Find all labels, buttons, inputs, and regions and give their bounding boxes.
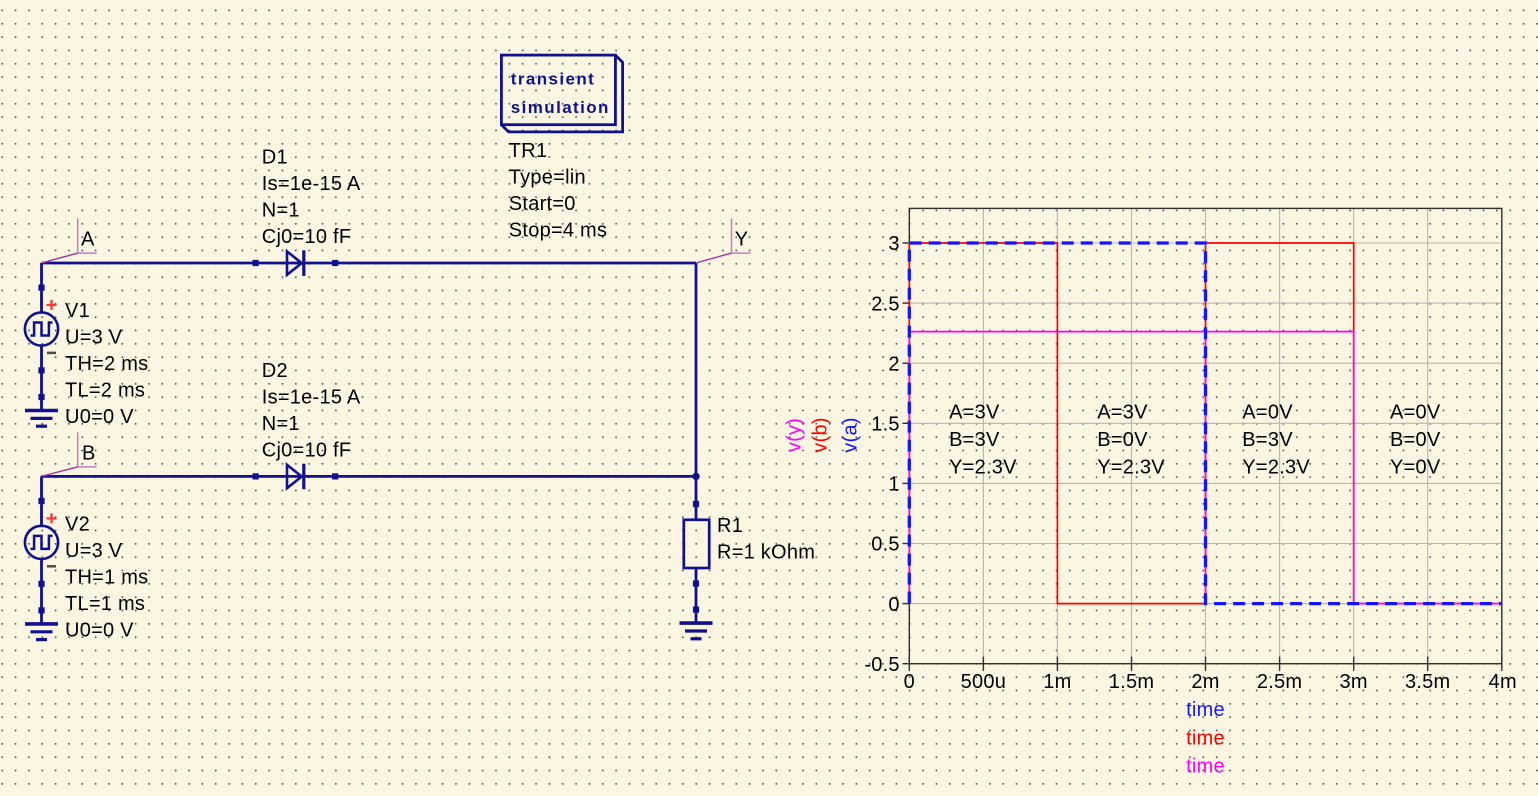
voltage source V2 (rectangular pulse) bbox=[25, 476, 58, 610]
svg-text:500u: 500u bbox=[961, 671, 1007, 693]
svg-text:Cj0=10 fF: Cj0=10 fF bbox=[262, 439, 352, 461]
plot frame bbox=[909, 208, 1502, 663]
svg-text:time: time bbox=[1186, 755, 1225, 777]
svg-text:Y: Y bbox=[735, 229, 749, 251]
label TR1 properties text bbox=[509, 140, 607, 242]
svg-text:V2: V2 bbox=[65, 514, 90, 536]
svg-text:2m: 2m bbox=[1191, 671, 1219, 693]
V2 minus terminal mark bbox=[47, 565, 56, 568]
svg-text:0.5: 0.5 bbox=[871, 534, 900, 556]
svg-text:Stop=4 ms: Stop=4 ms bbox=[509, 220, 607, 242]
svg-text:A: A bbox=[81, 229, 95, 251]
label V2 properties text bbox=[65, 514, 148, 642]
svg-text:3: 3 bbox=[888, 233, 899, 255]
y axis tick labels bbox=[864, 233, 899, 676]
svg-text:TL=2 ms: TL=2 ms bbox=[65, 380, 145, 402]
wire node A horizontal bbox=[42, 262, 697, 265]
ground for V1 bbox=[25, 394, 58, 426]
V2 plus terminal mark bbox=[47, 513, 57, 523]
svg-text:Type=lin: Type=lin bbox=[509, 167, 586, 189]
svg-text:0: 0 bbox=[888, 594, 899, 616]
plot grid lines bbox=[909, 208, 1502, 663]
junction node at Y/R1 bbox=[692, 473, 699, 480]
svg-text:Is=1e-15 A: Is=1e-15 A bbox=[262, 386, 361, 408]
y axis name v(y) bbox=[784, 418, 806, 452]
svg-text:v(b): v(b) bbox=[810, 417, 832, 452]
curve v(b) red bbox=[909, 243, 1502, 604]
svg-text:2: 2 bbox=[888, 353, 899, 375]
svg-text:A=0V: A=0V bbox=[1242, 402, 1293, 424]
svg-text:N=1: N=1 bbox=[262, 200, 300, 222]
node label B bbox=[42, 432, 97, 476]
svg-text:Y=2.3V: Y=2.3V bbox=[949, 457, 1017, 479]
svg-text:Y=2.3V: Y=2.3V bbox=[1242, 457, 1310, 479]
svg-text:4m: 4m bbox=[1489, 671, 1517, 693]
svg-text:TL=1 ms: TL=1 ms bbox=[65, 593, 145, 615]
svg-text:time: time bbox=[1186, 727, 1225, 749]
voltage source V1 (rectangular pulse) bbox=[25, 263, 58, 397]
curve v(y) magenta bbox=[909, 332, 1502, 604]
svg-text:A=3V: A=3V bbox=[1097, 402, 1148, 424]
svg-text:Is=1e-15 A: Is=1e-15 A bbox=[262, 173, 361, 195]
y axis name v(a) bbox=[839, 417, 861, 452]
svg-text:D2: D2 bbox=[262, 360, 288, 382]
curve v(a) blue dashed bbox=[909, 243, 1502, 604]
svg-text:U0=0 V: U0=0 V bbox=[65, 620, 134, 642]
svg-text:R=1 kOhm: R=1 kOhm bbox=[717, 542, 815, 564]
svg-text:1.5: 1.5 bbox=[871, 414, 900, 436]
svg-text:3.5m: 3.5m bbox=[1405, 671, 1450, 693]
svg-text:B: B bbox=[82, 443, 96, 465]
svg-text:A=3V: A=3V bbox=[949, 402, 1000, 424]
resistor R1 bbox=[684, 501, 709, 610]
svg-text:0: 0 bbox=[904, 671, 915, 693]
node annotation columns bbox=[949, 402, 1441, 479]
svg-text:U=3 V: U=3 V bbox=[65, 327, 123, 349]
ground for R1 bbox=[680, 607, 713, 639]
label V1 properties text bbox=[65, 300, 148, 428]
svg-text:A=0V: A=0V bbox=[1390, 402, 1441, 424]
svg-text:3m: 3m bbox=[1340, 671, 1368, 693]
svg-text:B=3V: B=3V bbox=[949, 429, 1000, 451]
svg-text:U0=0 V: U0=0 V bbox=[65, 406, 134, 428]
svg-text:2.5: 2.5 bbox=[871, 293, 900, 315]
svg-text:1.5m: 1.5m bbox=[1109, 671, 1154, 693]
ground for V2 bbox=[25, 607, 58, 639]
svg-text:v(a): v(a) bbox=[839, 417, 861, 452]
x axis tick labels bbox=[904, 671, 1517, 693]
V1 plus terminal mark bbox=[47, 300, 57, 310]
svg-text:Start=0: Start=0 bbox=[509, 193, 576, 215]
diode D1 bbox=[253, 250, 339, 276]
svg-text:TH=1 ms: TH=1 ms bbox=[65, 567, 148, 589]
svg-text:TR1: TR1 bbox=[509, 140, 548, 162]
wire node Y vertical bbox=[695, 263, 698, 476]
svg-text:D1: D1 bbox=[262, 147, 288, 169]
V1 minus terminal mark bbox=[47, 352, 56, 355]
svg-text:V1: V1 bbox=[65, 300, 90, 322]
svg-text:2.5m: 2.5m bbox=[1257, 671, 1302, 693]
svg-text:1: 1 bbox=[888, 474, 899, 496]
svg-text:TH=2 ms: TH=2 ms bbox=[65, 353, 148, 375]
svg-text:v(y): v(y) bbox=[784, 418, 806, 452]
y axis name v(b) bbox=[810, 417, 832, 452]
transient simulation block TR1 bbox=[501, 55, 622, 132]
node label A bbox=[42, 219, 97, 263]
svg-text:B=3V: B=3V bbox=[1242, 429, 1293, 451]
svg-text:Y=0V: Y=0V bbox=[1390, 457, 1441, 479]
x axis name time (blue) bbox=[1186, 699, 1225, 721]
svg-text:simulation: simulation bbox=[511, 98, 610, 117]
svg-text:R1: R1 bbox=[717, 515, 743, 537]
plot axis ticks bbox=[903, 243, 1502, 671]
svg-text:time: time bbox=[1186, 699, 1225, 721]
label D2 properties text bbox=[262, 360, 361, 462]
svg-text:B=0V: B=0V bbox=[1390, 429, 1441, 451]
svg-text:1m: 1m bbox=[1043, 671, 1071, 693]
svg-text:Y=2.3V: Y=2.3V bbox=[1097, 457, 1165, 479]
x axis name time (red) bbox=[1186, 727, 1225, 749]
svg-text:transient: transient bbox=[511, 70, 595, 89]
label D1 properties text bbox=[262, 147, 361, 249]
wire node B horizontal bbox=[42, 475, 697, 478]
wire junction to R1 bbox=[695, 476, 698, 520]
diode D2 bbox=[253, 464, 339, 490]
svg-text:Cj0=10 fF: Cj0=10 fF bbox=[262, 226, 352, 248]
svg-text:N=1: N=1 bbox=[262, 413, 300, 435]
x axis name time (magenta) bbox=[1186, 755, 1225, 777]
svg-text:-0.5: -0.5 bbox=[864, 654, 899, 676]
svg-text:B=0V: B=0V bbox=[1097, 429, 1148, 451]
label R1 properties text bbox=[717, 515, 815, 564]
node label Y bbox=[697, 219, 751, 263]
svg-text:U=3 V: U=3 V bbox=[65, 540, 123, 562]
